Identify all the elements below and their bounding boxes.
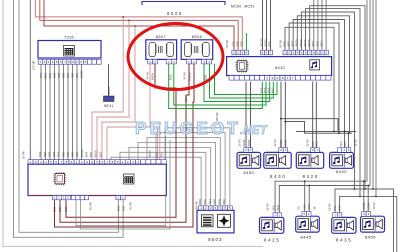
- wire 8410B corner 7: [310, 6, 365, 189]
- svg-text:6451: 6451: [320, 40, 323, 46]
- svg-text:9502: 9502: [204, 199, 207, 205]
- connector A of 8410: [232, 50, 249, 55]
- svg-text:8513: 8513: [170, 74, 173, 80]
- connector C of 8410: [283, 50, 328, 55]
- svg-text:8518: 8518: [260, 87, 263, 93]
- wire MC515 black: [262, 0, 264, 50]
- wire H1 to speaker 8425 pin2: [275, 181, 367, 213]
- pins of 8420: [311, 148, 320, 153]
- wire group outer right verticals from top edge (4 wires): [366, 0, 368, 181]
- svg-text:8506: 8506: [192, 35, 202, 39]
- wire 9030 dark red (bottom): [44, 0, 234, 50]
- wire group straight verticals to top edge (4 wires): [313, 0, 315, 50]
- svg-text:9030: 9030: [241, 40, 244, 46]
- connector pins 8507 right: [166, 59, 176, 64]
- wire drop to speaker 8455 pin2: [363, 181, 365, 212]
- svg-text:7010: 7010: [76, 151, 79, 157]
- aerial amplifier 8506: [181, 40, 213, 60]
- svg-text:7091: 7091: [58, 151, 61, 157]
- svg-text:2V NR: 2V NR: [328, 203, 331, 210]
- svg-text:7092: 7092: [62, 151, 65, 157]
- pins of 8445: [302, 212, 311, 217]
- loudspeaker 8445 (rear left tweeter): [296, 216, 320, 232]
- svg-text:MC41B: MC41B: [81, 70, 84, 79]
- svg-text:8514: 8514: [268, 87, 271, 93]
- svg-text:7004: 7004: [39, 151, 42, 157]
- connector pins of 7215: [38, 60, 101, 65]
- junction dot H4 b: [375, 196, 377, 198]
- svg-text:8500: 8500: [167, 11, 183, 16]
- svg-text:8431: 8431: [272, 205, 275, 211]
- svg-text:8411B: 8411B: [308, 39, 311, 46]
- wire H4 to speaker 8435: [340, 196, 397, 252]
- icon IC chip inside 8410: [236, 60, 249, 73]
- wire 8506B pink stub up from BSI: [159, 123, 161, 160]
- svg-text:8V NR: 8V NR: [279, 40, 283, 48]
- svg-text:12V MR: 12V MR: [32, 61, 36, 70]
- svg-text:9020: 9020: [269, 40, 272, 46]
- junction dot 8445 drop 2: [308, 185, 310, 187]
- wire 9120 black: [266, 0, 268, 50]
- wire drop to speaker 8445 pin2: [304, 181, 306, 212]
- BSI unit: [28, 164, 166, 195]
- svg-text:8430A: 8430A: [280, 139, 283, 146]
- icon display matrix inside 7215: [64, 46, 75, 57]
- svg-text:8511: 8511: [54, 206, 57, 212]
- svg-text:8455: 8455: [365, 235, 376, 240]
- svg-text:8507: 8507: [156, 35, 166, 39]
- svg-text:9V NR: 9V NR: [184, 72, 187, 80]
- svg-text:2V NR: 2V NR: [306, 139, 309, 146]
- wire H2 to speaker 8425 pin1: [279, 186, 370, 213]
- junction dot red bus 2: [128, 20, 130, 22]
- svg-text:6434: 6434: [292, 40, 295, 46]
- annotation red ellipse around 8507/8506: [128, 24, 223, 90]
- wire drop to speaker 8455 pin1: [367, 186, 369, 212]
- wire 8513 dark red loop 1: [66, 64, 176, 217]
- wire 8517 green 3: [204, 64, 270, 102]
- svg-text:8410A: 8410A: [296, 39, 299, 47]
- loudspeaker 8455 (rear right tweeter): [361, 216, 385, 232]
- wire rail upper left segment: [296, 130, 338, 132]
- svg-text:.NET: .NET: [240, 125, 268, 137]
- harness bracket 8500: [142, 2, 225, 6]
- svg-text:9120A: 9120A: [265, 39, 268, 47]
- wire 8515 green 2: [174, 64, 266, 105]
- wire 6430 corner 1: [285, 27, 334, 131]
- junction dot H3 c: [372, 188, 374, 190]
- loudspeaker 8435 (rear right): [332, 217, 356, 233]
- svg-text:8450B: 8450B: [363, 202, 366, 209]
- icon star/cross inside 8503: [218, 214, 231, 227]
- wire 8506A pink stub up from BSI: [157, 126, 159, 160]
- loudspeaker 8440 (front right tweeter): [330, 152, 354, 168]
- page border frame: [3, 0, 263, 247]
- junction dot 8445 drop 1: [304, 180, 306, 182]
- svg-text:7215: 7215: [64, 36, 74, 40]
- wire 9040 red (top): [35, 0, 242, 50]
- svg-text:9503: 9503: [199, 199, 202, 205]
- svg-text:PEUGEOT: PEUGEOT: [135, 118, 241, 138]
- svg-text:7091: 7091: [63, 72, 66, 78]
- loudspeaker 8425 (rear left): [260, 217, 284, 233]
- wire 8430A to speaker 8430: [280, 82, 282, 148]
- svg-text:6430: 6430: [283, 40, 286, 46]
- splice MC41: [104, 96, 115, 102]
- junction dot red bus 3: [134, 25, 136, 27]
- connector pins of 8503: [199, 206, 233, 210]
- svg-text:6502: 6502: [156, 151, 159, 157]
- pins of 8425: [273, 213, 281, 218]
- connector pins BSI bottom group 2: [72, 196, 89, 200]
- svg-text:8430B: 8430B: [284, 139, 287, 146]
- connector pins BSI bottom group 3: [116, 196, 125, 200]
- svg-text:8451: 8451: [304, 204, 307, 210]
- wire gray loop to mid bus b: [81, 140, 171, 229]
- unit 7215 (display/clock): [38, 41, 101, 59]
- svg-text:2V NR: 2V NR: [274, 139, 277, 146]
- svg-text:3V: 3V: [313, 206, 316, 209]
- pins of 8450: [244, 148, 253, 153]
- svg-text:8 4 2 0: 8 4 2 0: [303, 174, 318, 179]
- pins of 8440: [337, 148, 351, 153]
- wire 8411 corner 4 to speaker 8440: [297, 16, 349, 148]
- svg-text:8516: 8516: [264, 87, 267, 93]
- svg-text:7087: 7087: [44, 151, 47, 157]
- wire 8501 gray loop (left outer): [14, 0, 124, 237]
- wire 6431 corner 2: [289, 23, 339, 133]
- loudspeaker 8420 (front right): [296, 152, 323, 168]
- svg-text:7092: 7092: [67, 72, 70, 78]
- svg-text:8450: 8450: [308, 204, 311, 210]
- svg-text:8450: 8450: [243, 170, 254, 175]
- coil symbols inside 8507: [149, 43, 173, 57]
- svg-text:9V NR: 9V NR: [225, 40, 229, 48]
- svg-text:8505A: 8505A: [95, 150, 98, 158]
- svg-text:7098: 7098: [58, 72, 61, 78]
- svg-text:6450: 6450: [316, 40, 319, 46]
- svg-text:9050: 9050: [237, 40, 240, 46]
- svg-text:8450A: 8450A: [368, 202, 371, 209]
- wire bundle BSI-to-8503 (7 gray wires): [111, 157, 201, 206]
- connector pins BSI bottom group 1: [52, 196, 70, 200]
- svg-text:6V HR: 6V HR: [89, 202, 93, 210]
- svg-text:8418: 8418: [340, 141, 343, 147]
- wire 6434 corner 5: [301, 12, 354, 189]
- junction dot red bus 1: [122, 16, 124, 18]
- control unit 8503: [197, 210, 234, 233]
- loudspeaker 8450 (front left tweeter): [237, 152, 261, 168]
- svg-text:8 4 2 5: 8 4 2 5: [264, 237, 279, 242]
- wire 8410A corner 6: [306, 9, 361, 197]
- wire 8519 green 4: [210, 64, 274, 98]
- icon IC chip inside BSI: [53, 172, 66, 185]
- connector pins 8507 left: [148, 59, 158, 64]
- loudspeaker 8430 (front left): [264, 152, 291, 168]
- junction dot rail upper: [333, 131, 335, 133]
- wire drop to 8430 pin 2: [284, 122, 286, 148]
- wire 28VMC green 5: [215, 64, 278, 95]
- svg-text:MC60 MC51: MC60 MC51: [231, 5, 255, 9]
- svg-text:8411: 8411: [344, 141, 347, 147]
- wire 8511 dark red loop 3: [55, 64, 195, 227]
- junction dot 8440 drop 2: [348, 132, 350, 134]
- wire 8430B rail lower: [285, 82, 352, 134]
- svg-text:8 4 3 5: 8 4 3 5: [336, 237, 351, 242]
- svg-text:6V HR: 6V HR: [194, 201, 198, 209]
- svg-text:7090: 7090: [72, 151, 75, 157]
- coil symbols inside 8506: [185, 43, 210, 57]
- svg-text:8410A: 8410A: [152, 72, 155, 80]
- wire MC41B to splice MC41: [108, 64, 110, 96]
- wire 8512 dark red loop 2: [60, 64, 189, 222]
- svg-text:8504: 8504: [214, 199, 217, 205]
- wire 8502A pink from 8507: [107, 64, 150, 160]
- svg-text:8445: 8445: [301, 235, 312, 240]
- svg-text:8505B: 8505B: [149, 150, 152, 158]
- svg-text:6502: 6502: [99, 151, 102, 157]
- icon hatched square inside 8503: [202, 215, 214, 227]
- svg-text:9503: 9503: [45, 72, 48, 78]
- radio unit 8410: [227, 57, 332, 76]
- svg-text:6505: 6505: [218, 199, 221, 205]
- svg-text:2V HR: 2V HR: [129, 202, 133, 210]
- svg-text:8501: 8501: [123, 205, 126, 211]
- connector pins 8506 left: [187, 59, 197, 64]
- svg-text:8430: 8430: [277, 205, 280, 211]
- svg-text:8431: 8431: [312, 40, 315, 46]
- svg-text:8421A: 8421A: [304, 39, 307, 47]
- wire drop to speaker 8445 pin1: [308, 186, 310, 212]
- wire 9020 black: [270, 0, 272, 50]
- svg-text:30A: 30A: [161, 153, 164, 158]
- junction dot 8440 drop 1: [344, 131, 346, 133]
- wire 8500 gray loop (left inner): [19, 0, 118, 232]
- wire 8418 corner 3 to speaker 8440: [293, 20, 344, 148]
- wire gray loop to mid bus a: [76, 136, 166, 226]
- svg-text:9504: 9504: [85, 151, 88, 157]
- svg-text:MC411: MC411: [108, 87, 111, 95]
- svg-text:7095: 7095: [67, 151, 70, 157]
- svg-text:8513: 8513: [65, 206, 68, 212]
- wire BB00 black vertical to BSI pin 1: [29, 0, 31, 160]
- wire rail upper from junction: [281, 119, 356, 132]
- svg-text:6431: 6431: [287, 40, 290, 46]
- svg-text:8453A: 8453A: [248, 139, 251, 146]
- junction dot 8455 drop 2: [367, 185, 369, 187]
- svg-text:2V HR: 2V HR: [22, 151, 26, 159]
- svg-text:9040: 9040: [232, 40, 235, 46]
- svg-text:8453B: 8453B: [243, 139, 246, 146]
- svg-text:MC41B: MC41B: [81, 149, 84, 158]
- svg-text:7010: 7010: [76, 72, 79, 78]
- svg-text:3V NR: 3V NR: [373, 202, 376, 209]
- svg-text:8 4 3 0: 8 4 3 0: [270, 174, 285, 179]
- wire 8412 to speaker 8420: [315, 82, 317, 148]
- svg-text:8511: 8511: [205, 74, 208, 80]
- svg-text:3V NR: 3V NR: [354, 139, 357, 146]
- junction dot H4 a: [359, 196, 361, 198]
- svg-text:8410: 8410: [275, 65, 285, 70]
- wire 8505C pink drop 3: [102, 26, 135, 160]
- icon matrix inside BSI: [124, 174, 135, 184]
- svg-text:8512: 8512: [271, 87, 274, 93]
- svg-text:9502: 9502: [49, 72, 52, 78]
- svg-text:9509: 9509: [90, 151, 93, 157]
- watermark PEUGEOT.NET: [135, 118, 268, 138]
- svg-text:9G: 9G: [297, 206, 300, 209]
- connector pins 8506 right: [202, 59, 212, 64]
- svg-text:/8410M: /8410M: [189, 73, 192, 81]
- wire bundle 7215-to-BSI (10 gray verticals): [40, 64, 42, 159]
- svg-text:MC41: MC41: [104, 104, 113, 108]
- wire 8505B pink drop 2: [97, 20, 129, 159]
- svg-text:7093: 7093: [48, 151, 51, 157]
- pins of 8455: [362, 212, 371, 217]
- junction dot rail lower: [338, 132, 340, 134]
- svg-text:9504: 9504: [223, 199, 226, 205]
- svg-text:8413: 8413: [312, 141, 315, 147]
- aerial amplifier 8507: [146, 40, 177, 60]
- svg-text:8503: 8503: [208, 237, 223, 242]
- svg-text:8410B: 8410B: [300, 39, 303, 47]
- junction dot 8430 rail: [280, 118, 282, 120]
- wire 8453A to speaker 8450: [250, 82, 252, 148]
- pins of 8430: [279, 148, 288, 153]
- svg-text:7098: 7098: [53, 151, 56, 157]
- wire H3 to speaker 8435: [335, 189, 394, 252]
- connector pins of BSI (top): [28, 160, 166, 165]
- svg-text:8440: 8440: [336, 169, 347, 174]
- wire 8413 to speaker 8420: [312, 82, 314, 148]
- wire 9050 red (middle): [40, 0, 238, 50]
- junction dot H3 a: [354, 188, 356, 190]
- svg-text:8410: 8410: [339, 205, 342, 211]
- pins of 8435: [333, 213, 342, 218]
- svg-text:7093: 7093: [54, 72, 57, 78]
- svg-text:8517: 8517: [185, 96, 188, 102]
- connector D of 8410 (bottom): [229, 76, 331, 81]
- svg-text:2V NR: 2V NR: [266, 203, 269, 210]
- svg-text:8411: 8411: [334, 205, 337, 211]
- svg-text:7080: 7080: [72, 72, 75, 78]
- svg-text:2V NR: 2V NR: [239, 139, 242, 146]
- wire 8513G green 1: [169, 64, 263, 109]
- svg-text:8500: 8500: [118, 205, 121, 211]
- wire 8518 green stub at 8410 pin 4: [245, 33, 247, 50]
- wire 8453B to speaker 8450: [245, 82, 247, 148]
- connector B of 8410: [260, 50, 272, 55]
- icon music note inside 8410: [310, 60, 320, 70]
- svg-text:MC515: MC515: [261, 38, 264, 47]
- junction dot H3 b: [364, 188, 366, 190]
- svg-text:8530: 8530: [59, 206, 62, 212]
- junction dot 8430 rail 2: [284, 121, 286, 123]
- wire 8505A pink drop 1: [92, 17, 123, 160]
- svg-text:7010: 7010: [209, 199, 212, 205]
- junction dot 8455 drop 1: [363, 180, 365, 182]
- svg-text:9V NR: 9V NR: [147, 72, 150, 80]
- svg-text:7004: 7004: [40, 72, 43, 78]
- svg-text:8412: 8412: [315, 141, 318, 147]
